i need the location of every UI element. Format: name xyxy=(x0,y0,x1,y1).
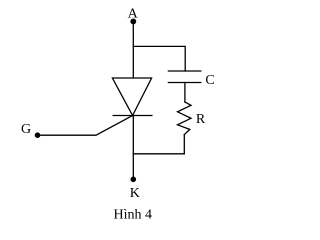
wire cathode vertical to K dot xyxy=(132,116,134,180)
thyristor cathode bar xyxy=(113,115,152,117)
svg-text:Hình 4: Hình 4 xyxy=(114,208,153,223)
wire resistor to bottom branch xyxy=(183,135,185,154)
svg-text:G: G xyxy=(21,122,31,137)
node G terminal dot xyxy=(35,133,40,138)
node A terminal dot xyxy=(131,19,136,24)
wire top branch to RC network xyxy=(133,46,185,71)
capacitor C1 top plate xyxy=(168,70,200,72)
thyristor SCR triangle xyxy=(112,78,151,116)
wire capacitor to resistor xyxy=(184,83,186,103)
svg-text:A: A xyxy=(128,7,139,22)
svg-text:C: C xyxy=(205,73,214,88)
svg-text:K: K xyxy=(130,186,140,201)
capacitor C1 bottom plate xyxy=(168,82,200,84)
svg-text:R: R xyxy=(196,112,206,127)
resistor R1 zigzag xyxy=(178,102,192,135)
wire anode vertical from A dot to SCR triangle xyxy=(132,21,134,78)
wire bottom branch to cathode wire xyxy=(133,153,184,155)
node K terminal dot xyxy=(131,177,136,182)
wire gate lead xyxy=(38,116,133,136)
